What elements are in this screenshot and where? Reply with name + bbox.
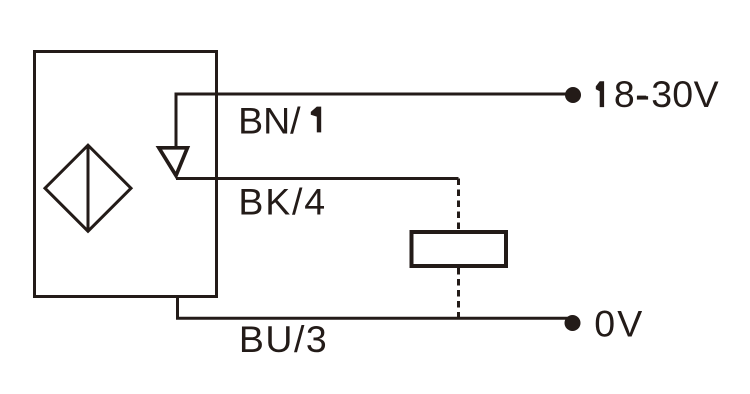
svg-text:BK/4: BK/4	[238, 181, 327, 223]
svg-text:BU/3: BU/3	[239, 318, 328, 360]
svg-text:0V: 0V	[594, 303, 642, 345]
svg-text:8-30V: 8-30V	[614, 73, 719, 115]
svg-text:BN/: BN/	[238, 99, 301, 141]
